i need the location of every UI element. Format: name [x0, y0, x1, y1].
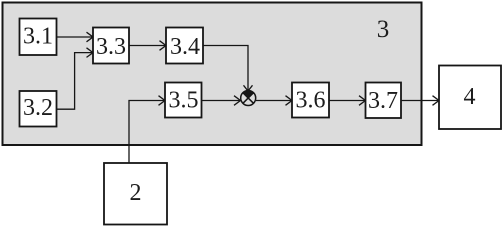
svg-text:3.5: 3.5: [169, 88, 199, 114]
svg-text:2: 2: [130, 180, 142, 206]
mixer (circle with X, filled top wedge): [241, 91, 256, 106]
svg-text:3.7: 3.7: [368, 88, 398, 114]
arrowhead into 3.3 (upper): [87, 32, 94, 42]
svg-text:4: 4: [464, 84, 476, 110]
wire 3.4 to mixer (right then down): [203, 46, 248, 91]
wire 3.7 to 4: [401, 100, 438, 102]
block 3.2: [20, 91, 57, 127]
subsystem box 3 (gray container): [3, 3, 422, 146]
svg-text:3: 3: [377, 16, 390, 43]
wire mixer to 3.6: [256, 100, 291, 102]
svg-text:3.2: 3.2: [23, 95, 53, 121]
wire 3.2 to 3.3: [57, 53, 93, 110]
wire 3.6 to 3.7: [329, 100, 365, 102]
arrowhead into 4: [433, 96, 440, 106]
arrowhead into 3.4: [160, 41, 167, 51]
block 3.6: [292, 83, 329, 118]
arrowhead into 3.6: [286, 96, 293, 106]
arrowhead into 3.7: [359, 96, 366, 106]
block 3.7: [366, 83, 402, 119]
arrowhead into mixer top: [244, 85, 253, 91]
wire 2 to 3.5 (up then right): [129, 101, 164, 164]
arrowhead into 3.5: [159, 96, 166, 106]
svg-text:3.4: 3.4: [170, 34, 200, 60]
block 4: [439, 66, 501, 130]
wire 3.3 to 3.4: [129, 45, 165, 47]
svg-text:3.3: 3.3: [96, 34, 126, 60]
svg-text:3.6: 3.6: [296, 88, 326, 114]
block 3.5: [165, 83, 202, 118]
wire 3.5 to mixer: [202, 100, 240, 102]
block 3.3: [93, 28, 129, 64]
svg-text:3.1: 3.1: [23, 24, 53, 50]
wire 3.1 to 3.3: [57, 36, 93, 38]
arrowhead into 3.3 (lower): [87, 48, 94, 58]
block 3.1: [20, 19, 57, 56]
block 2: [104, 163, 167, 225]
block 3.4: [166, 28, 203, 64]
arrowhead into mixer left: [234, 96, 241, 106]
